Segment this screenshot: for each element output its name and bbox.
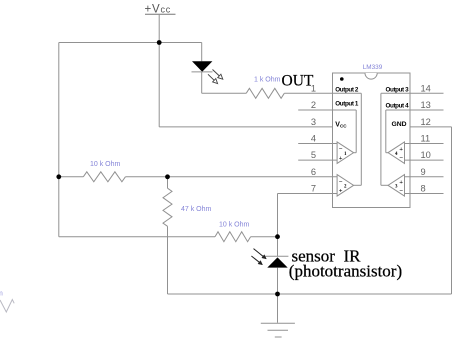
svg-text:12: 12 bbox=[421, 117, 431, 127]
svg-text:3: 3 bbox=[311, 117, 316, 127]
svg-text:47 k Ohm: 47 k Ohm bbox=[181, 206, 212, 213]
svg-text:10 k Ohm: 10 k Ohm bbox=[219, 222, 250, 229]
svg-text:5: 5 bbox=[311, 150, 316, 160]
svg-text:Output 1: Output 1 bbox=[335, 101, 359, 108]
svg-text:10 k Ohm: 10 k Ohm bbox=[90, 161, 121, 168]
svg-text:GND: GND bbox=[391, 121, 406, 128]
svg-text:10: 10 bbox=[421, 150, 431, 160]
svg-text:8: 8 bbox=[421, 184, 426, 194]
svg-text:+: + bbox=[339, 155, 343, 162]
svg-text:(phototransistor): (phototransistor) bbox=[289, 261, 402, 280]
svg-text:+: + bbox=[399, 146, 403, 153]
svg-text:7: 7 bbox=[311, 184, 316, 194]
svg-text:−: − bbox=[399, 155, 403, 162]
svg-text:9: 9 bbox=[421, 167, 426, 177]
svg-text:−: − bbox=[339, 179, 343, 186]
svg-text:1 k Ohm: 1 k Ohm bbox=[254, 76, 281, 83]
svg-text:Output 3: Output 3 bbox=[386, 87, 410, 94]
svg-text:OUT: OUT bbox=[282, 73, 314, 90]
svg-text:14: 14 bbox=[421, 83, 431, 93]
svg-text:+: + bbox=[399, 179, 403, 186]
svg-text:−: − bbox=[339, 146, 343, 153]
svg-text:11: 11 bbox=[421, 134, 431, 144]
svg-text:+Vcc: +Vcc bbox=[145, 3, 172, 15]
svg-text:LM339: LM339 bbox=[363, 64, 383, 71]
svg-text:+: + bbox=[339, 188, 343, 195]
svg-text:−: − bbox=[399, 188, 403, 195]
svg-text:m: m bbox=[0, 291, 3, 298]
svg-text:VCC: VCC bbox=[335, 121, 347, 128]
svg-text:2: 2 bbox=[311, 100, 316, 110]
svg-text:Output 2: Output 2 bbox=[335, 87, 359, 94]
svg-text:4: 4 bbox=[311, 134, 316, 144]
svg-text:6: 6 bbox=[311, 167, 316, 177]
svg-text:13: 13 bbox=[421, 100, 431, 110]
svg-text:Output 4: Output 4 bbox=[386, 103, 410, 110]
